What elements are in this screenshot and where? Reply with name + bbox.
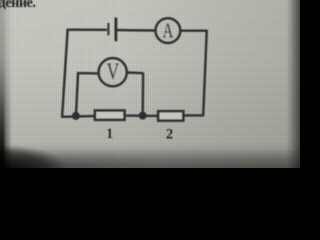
wire: voltmeter loop left horizontal <box>77 72 98 75</box>
label 1: resistor 1 value <box>106 125 113 142</box>
ammeter A: circle <box>156 18 181 43</box>
wire: right vertical <box>203 30 207 116</box>
label 2: resistor 2 value <box>166 126 173 142</box>
svg-text:A: A <box>162 19 173 43</box>
wire: left vertical <box>62 29 68 117</box>
wire: ammeter to top-right corner <box>181 30 207 32</box>
screen pixel-grid texture <box>0 0 300 168</box>
wire: voltmeter loop right horizontal <box>127 71 143 74</box>
battery: short negative plate <box>107 23 109 35</box>
voltmeter V: letter <box>107 60 120 85</box>
voltmeter V: circle <box>99 58 127 86</box>
uneven illumination: darker right third <box>0 0 300 168</box>
wire: top-left corner to battery <box>67 29 107 31</box>
wire: node B to resistor 1 <box>126 114 143 117</box>
battery: long positive plate <box>115 18 118 42</box>
wire: bottom-right corner to resistor 2 <box>184 114 204 116</box>
wire: voltmeter loop right vertical <box>141 73 144 116</box>
wire: resistor 2 to node B <box>143 115 158 117</box>
svg-text:2: 2 <box>166 126 173 142</box>
vignette: bottom dark band <box>0 142 300 168</box>
text fragment "дение." <box>0 0 35 11</box>
resistor R1: rectangle <box>95 110 125 120</box>
vignette: right dark band <box>286 0 300 168</box>
resistor R2: rectangle <box>158 111 183 121</box>
node B: junction dot <box>139 112 147 120</box>
vignette: bottom-left dark corner <box>0 134 130 168</box>
ammeter A: letter <box>162 19 173 43</box>
wire: node A to bottom-left corner <box>61 115 76 118</box>
svg-text:V: V <box>107 60 120 85</box>
wire: voltmeter loop left vertical <box>76 72 78 116</box>
svg-text:дение.: дение. <box>0 0 35 11</box>
uneven illumination: slightly darker lower area <box>0 0 300 168</box>
wire: resistor 1 to node A <box>76 115 94 118</box>
wire: battery to ammeter <box>117 29 155 32</box>
node A: junction dot <box>72 112 80 120</box>
vignette: left dark band <box>0 0 14 168</box>
svg-text:1: 1 <box>106 125 113 142</box>
